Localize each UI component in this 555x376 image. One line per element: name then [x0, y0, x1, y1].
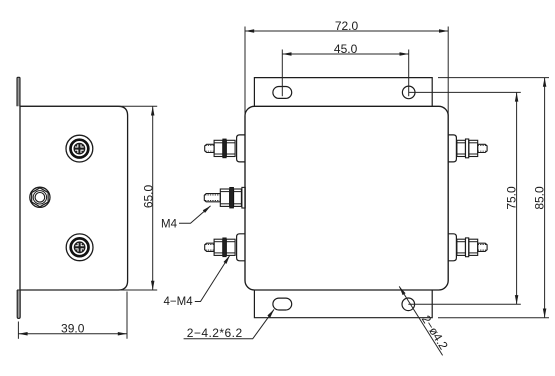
dimension 85.0 arrow top — [543, 78, 547, 87]
bottom flange round hole 4.2 — [402, 298, 415, 311]
leader line M4 — [179, 206, 211, 223]
dimension 75.0 line — [516, 92, 518, 304]
dimension 75.0 arrow top — [515, 92, 519, 101]
leader line 2-4.2*6.2 — [184, 309, 274, 338]
svg-text:72.0: 72.0 — [335, 19, 359, 33]
dimension 72.0 arrow right — [439, 29, 448, 33]
dimension 65.0 extension line bottom — [17, 289, 157, 291]
svg-text:2−4.2*6.2: 2−4.2*6.2 — [187, 326, 243, 340]
dimension 72.0 extension line left — [244, 27, 246, 117]
dimension 85.0 arrow bottom — [543, 309, 547, 318]
leader arrow 2-dia4.2 — [398, 285, 406, 295]
svg-text:39.0: 39.0 — [61, 321, 85, 335]
leader line 2-dia4.2 — [399, 286, 442, 355]
dimension 45.0 arrow left — [282, 52, 291, 56]
dimension 45.0 extension line right — [408, 50, 410, 97]
dimension 45.0 extension line left — [281, 50, 283, 97]
cover screw bottom (left view) — [66, 234, 93, 261]
dimension 65.0 arrow top — [151, 106, 155, 115]
dimension 39.0 arrow left — [18, 332, 27, 336]
dimension 75.0 extension line top — [409, 91, 521, 93]
filter body (plan view) — [245, 106, 448, 290]
terminal stud middle-left M4 (plan view) — [204, 187, 245, 208]
terminal stud nut, axial (left view) — [30, 187, 50, 207]
terminal stud bottom-left (plan view) — [205, 234, 246, 261]
cover screw top (left view) — [66, 135, 93, 162]
terminal stud bottom-right (plan view) — [448, 234, 487, 261]
dimension 75.0 arrow bottom — [515, 295, 519, 304]
leader arrow 2-4.2*6.2 — [267, 308, 275, 318]
dimension 39.0 extension line left — [17, 322, 19, 339]
dimension 85.0 extension line bottom — [438, 317, 549, 319]
top flange round hole 4.2 — [402, 86, 415, 99]
left view: side elevation — [17, 77, 157, 339]
svg-text:M4: M4 — [161, 219, 178, 231]
leader line 4-M4 — [195, 256, 230, 302]
mounting flange tab bottom (left view) — [17, 290, 20, 319]
dimension 65.0 extension line top — [20, 105, 157, 107]
filter body (left view) — [20, 106, 128, 290]
dimension 75.0 extension line bottom — [408, 303, 521, 305]
leader arrow 4-M4 — [223, 254, 231, 264]
svg-text:45.0: 45.0 — [334, 42, 358, 56]
dimension 85.0 line — [544, 78, 546, 318]
dimension 72.0 extension line right — [447, 27, 449, 117]
svg-text:85.0: 85.0 — [533, 186, 547, 210]
right view: top plan — [161, 19, 549, 355]
bottom flange slot hole 4.2x6.2 — [273, 298, 292, 310]
svg-text:65.0: 65.0 — [141, 184, 155, 208]
svg-text:75.0: 75.0 — [505, 186, 519, 210]
dimension 72.0 arrow left — [245, 29, 254, 33]
dimension 85.0 extension line top — [438, 77, 549, 79]
top flange slot hole 4.2x6.2 — [273, 87, 292, 99]
svg-text:4−M4: 4−M4 — [164, 296, 194, 308]
leader arrow M4 — [203, 204, 212, 213]
dimension 39.0 line — [18, 333, 127, 335]
dimension 65.0 arrow bottom — [151, 281, 155, 290]
terminal stud top-right (plan view) — [448, 135, 487, 162]
dimension 39.0 arrow right — [118, 332, 127, 336]
dimension 65.0 line — [152, 106, 154, 290]
top mounting flange (plan view) — [254, 78, 432, 107]
dimension 45.0 arrow right — [400, 52, 409, 56]
mounting flange tab top (left view) — [17, 77, 20, 106]
dimension 45.0 line — [282, 53, 408, 55]
terminal stud top-left (plan view) — [205, 135, 246, 162]
dimension 39.0 extension line right — [126, 292, 128, 339]
dimension 72.0 line — [245, 30, 448, 32]
bottom mounting flange (plan view) — [254, 290, 432, 318]
